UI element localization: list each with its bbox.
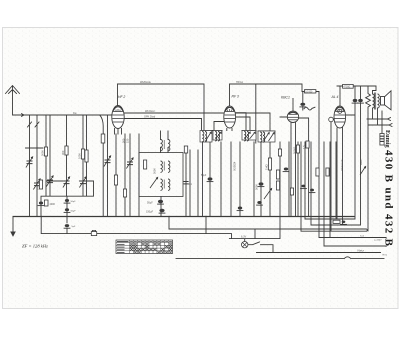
svg-text:100: 100 bbox=[36, 185, 40, 190]
svg-text:4000: 4000 bbox=[50, 203, 56, 206]
svg-text:KBC1: KBC1 bbox=[281, 96, 290, 100]
svg-text:6000: 6000 bbox=[360, 159, 363, 165]
svg-text:500: 500 bbox=[121, 138, 125, 143]
svg-text:Ri≈0: Ri≈0 bbox=[383, 254, 388, 257]
svg-text:Wk/Diode: Wk/Diode bbox=[140, 81, 151, 84]
svg-text:OPK Diod: OPK Diod bbox=[144, 115, 156, 118]
svg-text:RF 3: RF 3 bbox=[232, 94, 239, 98]
svg-text:Wellensch.: Wellensch. bbox=[341, 159, 344, 171]
svg-text:S0/3624: S0/3624 bbox=[233, 161, 236, 171]
svg-text:ZF = 128 kHz: ZF = 128 kHz bbox=[22, 244, 48, 249]
svg-text:50µF: 50µF bbox=[71, 201, 77, 203]
svg-text:10 000: 10 000 bbox=[305, 91, 313, 93]
svg-text:HF/zw: HF/zw bbox=[236, 81, 243, 84]
svg-text:50µF: 50µF bbox=[147, 202, 153, 205]
svg-text:b/w: b/w bbox=[73, 113, 77, 115]
svg-text:50µF: 50µF bbox=[71, 210, 77, 212]
svg-text:50µF: 50µF bbox=[201, 175, 207, 177]
svg-text:Wk Diod: Wk Diod bbox=[145, 110, 155, 113]
svg-text:1,5: 1,5 bbox=[302, 145, 306, 149]
svg-text:150µF: 150µF bbox=[146, 211, 154, 214]
svg-text:300: 300 bbox=[61, 150, 65, 155]
svg-text:5µF: 5µF bbox=[72, 226, 76, 228]
svg-text:4700Ω: 4700Ω bbox=[343, 86, 350, 88]
svg-text:AL 4: AL 4 bbox=[331, 95, 339, 99]
svg-text:150: 150 bbox=[126, 138, 130, 143]
svg-text:5000: 5000 bbox=[41, 150, 45, 156]
svg-text:1MΩ: 1MΩ bbox=[265, 164, 269, 170]
svg-text:Eumig: Eumig bbox=[384, 130, 391, 148]
svg-text:6,3V: 6,3V bbox=[241, 235, 246, 238]
svg-text:430 B und 432 B: 430 B und 432 B bbox=[382, 150, 394, 247]
svg-text:a=150V: a=150V bbox=[374, 239, 382, 241]
svg-text:5000: 5000 bbox=[255, 184, 259, 190]
svg-text:5000: 5000 bbox=[153, 168, 157, 174]
svg-text:HF 2: HF 2 bbox=[118, 95, 125, 99]
svg-text:1000: 1000 bbox=[78, 153, 82, 159]
svg-text:50000: 50000 bbox=[293, 146, 297, 154]
svg-text:Netz: Netz bbox=[358, 249, 365, 253]
